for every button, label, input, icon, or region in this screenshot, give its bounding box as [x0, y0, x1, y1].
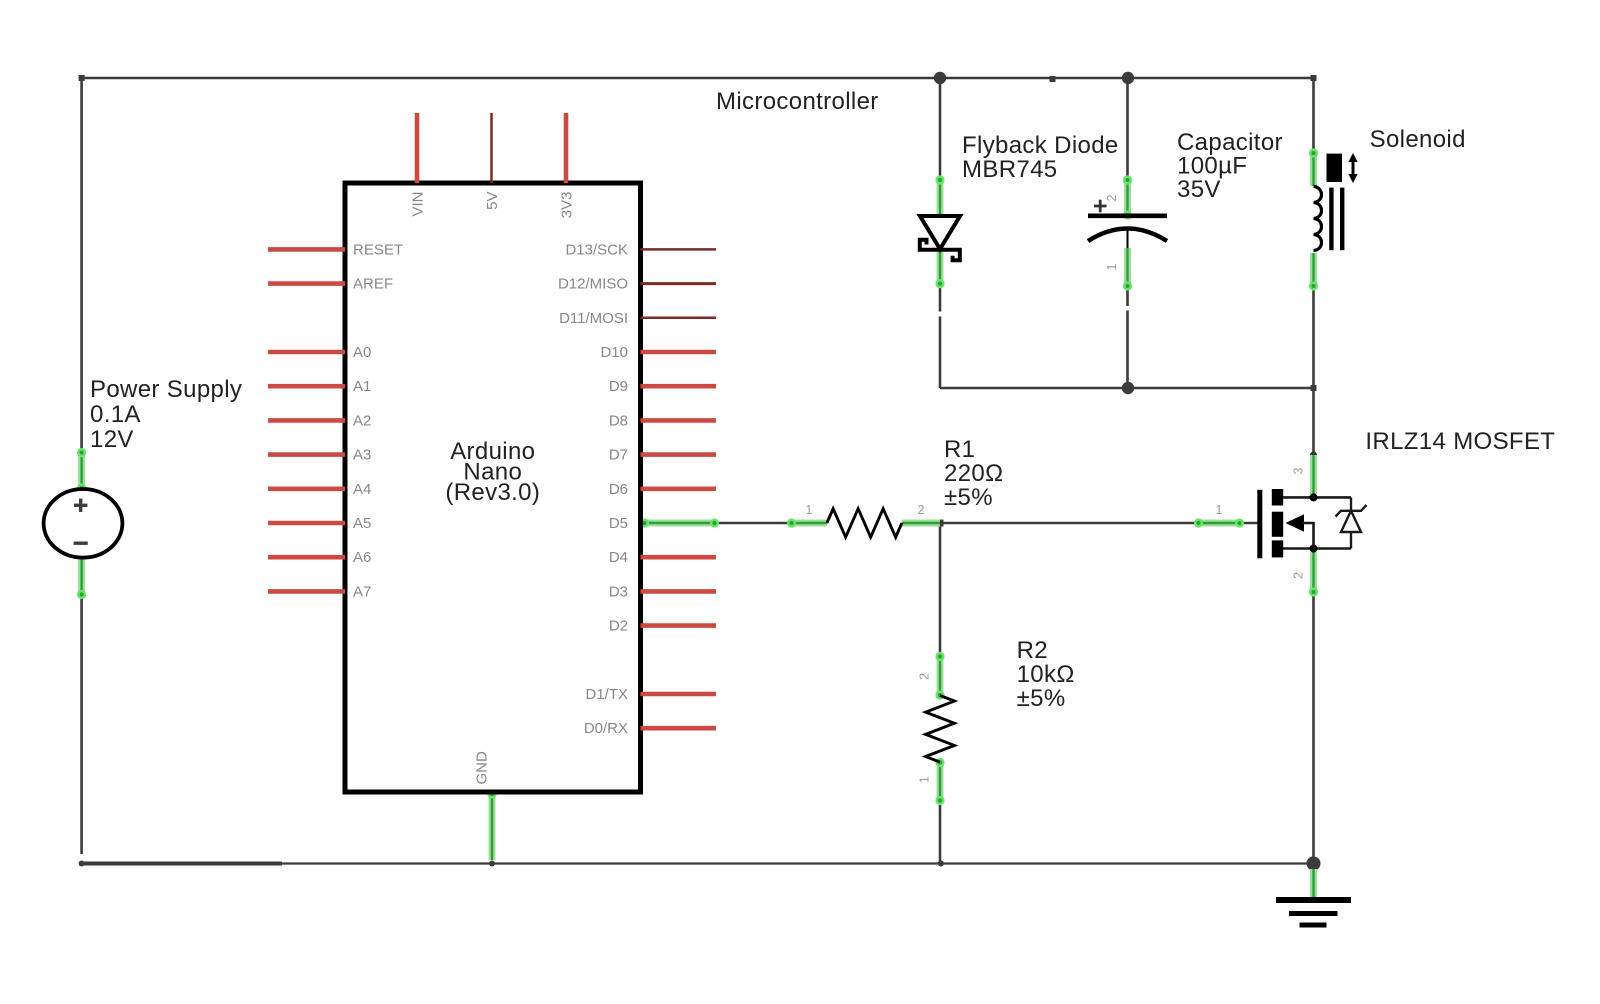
- junction bottom rail mosfet: [1307, 857, 1321, 871]
- svg-text:D6: D6: [609, 481, 628, 498]
- svg-text:1: 1: [917, 776, 931, 783]
- svg-text:D7: D7: [609, 447, 628, 464]
- svg-text:2: 2: [917, 673, 931, 680]
- junction R1 node square: [937, 520, 944, 527]
- wire end marker top mid: [1050, 76, 1056, 82]
- svg-text:RESET: RESET: [353, 241, 403, 258]
- green net: power supply bottom: [77, 558, 86, 600]
- green net: solenoid bottom: [1309, 253, 1318, 291]
- svg-text:Power Supply: Power Supply: [90, 376, 242, 403]
- junction middle rail capacitor: [1122, 382, 1134, 394]
- pin A3: [268, 452, 345, 457]
- wire end marker top-left: [79, 75, 85, 81]
- wire capacitor branch upper: [1126, 78, 1129, 180]
- pin A6: [268, 555, 345, 560]
- svg-text:Solenoid: Solenoid: [1370, 126, 1466, 153]
- power supply V1: [44, 489, 123, 558]
- pin D11/MOSI: [641, 317, 717, 320]
- green net: diode pin 1 bottom: [935, 250, 944, 288]
- svg-text:D13/SCK: D13/SCK: [565, 241, 628, 258]
- wire node to R2: [939, 523, 942, 656]
- green net: solenoid top: [1309, 148, 1318, 186]
- pin A2: [268, 418, 345, 423]
- svg-text:IRLZ14 MOSFET: IRLZ14 MOSFET: [1365, 428, 1555, 455]
- svg-text:±5%: ±5%: [944, 484, 993, 511]
- pin D4: [641, 555, 717, 560]
- wire mosfet source down: [1312, 592, 1315, 863]
- pin RESET: [268, 247, 345, 252]
- svg-text:D3: D3: [609, 583, 628, 600]
- green net: diode pin 2 top: [935, 175, 944, 216]
- junction bottom rail gnd pin: [489, 861, 495, 867]
- green net: mosfet gate pin 1: [1194, 518, 1244, 527]
- svg-text:D2: D2: [609, 618, 628, 635]
- wire bottom rail thick part: [82, 862, 282, 866]
- wire top rail: [82, 77, 1314, 80]
- ground symbol: [1276, 900, 1351, 925]
- green net: R1 pin 1: [787, 518, 827, 527]
- svg-text:A2: A2: [353, 412, 371, 429]
- svg-text:D10: D10: [600, 344, 628, 361]
- svg-text:D5: D5: [609, 515, 628, 532]
- pin AREF: [268, 281, 345, 286]
- wire left vertical upper: [80, 78, 83, 452]
- resistor R1 symbol: [827, 509, 902, 538]
- wire D5 to R1: [715, 522, 791, 525]
- wire capacitor branch lower: [1126, 286, 1129, 306]
- svg-text:AREF: AREF: [353, 276, 393, 293]
- capacitor C1 symbol: [1088, 216, 1167, 248]
- pin D7: [641, 452, 717, 457]
- pin A4: [268, 486, 345, 491]
- wire R1 to gate: [940, 522, 1198, 525]
- wire R2 to bottom rail: [939, 801, 942, 864]
- svg-text:0.1A: 0.1A: [90, 401, 141, 428]
- green net: R2 pin 1 bottom: [935, 758, 944, 805]
- pin D6: [641, 486, 717, 491]
- svg-text:1: 1: [806, 503, 813, 517]
- wire solenoid lower to mosfet: [1312, 286, 1315, 455]
- pin D1/TX: [641, 692, 717, 697]
- pin D9: [641, 384, 717, 389]
- svg-text:2: 2: [1292, 572, 1306, 579]
- svg-text:3: 3: [1292, 467, 1306, 474]
- pin VIN: [415, 113, 420, 183]
- svg-text:R1: R1: [944, 436, 975, 463]
- svg-text:12V: 12V: [90, 426, 134, 453]
- pin D0/RX: [641, 726, 717, 731]
- junction top diode tap: [934, 72, 946, 84]
- svg-text:D0/RX: D0/RX: [584, 720, 628, 737]
- svg-text:R2: R2: [1017, 637, 1048, 664]
- svg-text:220Ω: 220Ω: [944, 460, 1003, 487]
- svg-text:D4: D4: [609, 549, 628, 566]
- pin D3: [641, 589, 717, 594]
- svg-text:GND: GND: [474, 751, 491, 785]
- pin 5V: [490, 113, 493, 183]
- svg-text:10kΩ: 10kΩ: [1017, 661, 1075, 688]
- svg-text:Microcontroller: Microcontroller: [716, 88, 879, 115]
- flyback diode D1 symbol: [920, 216, 960, 260]
- pin D8: [641, 418, 717, 423]
- pin D2: [641, 623, 717, 628]
- wire left vertical lower: [80, 595, 83, 854]
- green net: ground symbol stub: [1310, 869, 1317, 898]
- green net: power supply top: [77, 448, 86, 493]
- wire end marker mid rail right: [1311, 385, 1317, 391]
- wire diode branch upper: [939, 78, 942, 180]
- green net: capacitor pin 1 bottom: [1123, 248, 1132, 291]
- svg-text:D9: D9: [609, 378, 628, 395]
- svg-text:A6: A6: [353, 549, 371, 566]
- svg-text:1: 1: [1216, 503, 1223, 517]
- wire end marker top right: [1311, 75, 1317, 81]
- svg-text:2: 2: [918, 503, 925, 517]
- mosfet Q1 symbol: [1257, 489, 1366, 558]
- wire solenoid upper: [1312, 78, 1315, 153]
- green net: capacitor pin 2 top: [1123, 175, 1132, 219]
- svg-text:D8: D8: [609, 412, 628, 429]
- green net: mosfet drain pin 3: [1310, 455, 1317, 494]
- svg-text:Flyback Diode: Flyback Diode: [962, 132, 1119, 159]
- wire bottom rail: [82, 862, 1314, 864]
- green net: arduino GND pin: [487, 789, 496, 860]
- svg-text:D1/TX: D1/TX: [585, 686, 628, 703]
- pin A5: [268, 521, 345, 526]
- svg-text:1: 1: [1105, 263, 1119, 270]
- svg-text:2: 2: [1105, 194, 1119, 201]
- pin A7: [268, 589, 345, 594]
- pin D13/SCK: [641, 248, 717, 251]
- junction bottom left corner: [79, 861, 85, 867]
- pin A1: [268, 384, 345, 389]
- solenoid L1 symbol: [1314, 153, 1358, 251]
- green net: R2 pin 2 top: [935, 652, 944, 700]
- resistor R2 symbol: [926, 696, 955, 763]
- svg-text:MBR745: MBR745: [962, 156, 1057, 183]
- green net: R1 pin 2: [902, 520, 940, 527]
- svg-text:(Rev3.0): (Rev3.0): [445, 479, 540, 506]
- pin D12/MISO: [641, 282, 717, 285]
- svg-text:VIN: VIN: [410, 192, 427, 217]
- pin A0: [268, 350, 345, 355]
- green net: D5 pin: [640, 518, 719, 527]
- svg-text:A1: A1: [353, 378, 371, 395]
- svg-text:35V: 35V: [1177, 176, 1221, 203]
- svg-text:D12/MISO: D12/MISO: [558, 276, 628, 293]
- pin D10: [641, 350, 717, 355]
- svg-text:5V: 5V: [484, 192, 501, 210]
- junction top capacitor tap: [1122, 72, 1134, 84]
- pin 3V3: [564, 113, 569, 183]
- svg-text:±5%: ±5%: [1017, 685, 1066, 712]
- svg-text:A0: A0: [353, 344, 371, 361]
- wire middle rail: [940, 387, 1314, 390]
- svg-text:A3: A3: [353, 447, 371, 464]
- junction drain node dot: [1310, 451, 1317, 458]
- svg-text:D11/MOSI: D11/MOSI: [559, 310, 628, 327]
- svg-text:A7: A7: [353, 583, 371, 600]
- green net: mosfet source pin 2: [1309, 552, 1318, 597]
- wire diode branch lower: [939, 284, 942, 312]
- svg-text:A5: A5: [353, 515, 371, 532]
- svg-text:3V3: 3V3: [559, 192, 576, 219]
- arduino nano U1 box: [345, 183, 641, 792]
- junction bottom rail R2: [938, 861, 944, 867]
- svg-text:A4: A4: [353, 481, 371, 498]
- capacitor plus sign: [1094, 200, 1107, 213]
